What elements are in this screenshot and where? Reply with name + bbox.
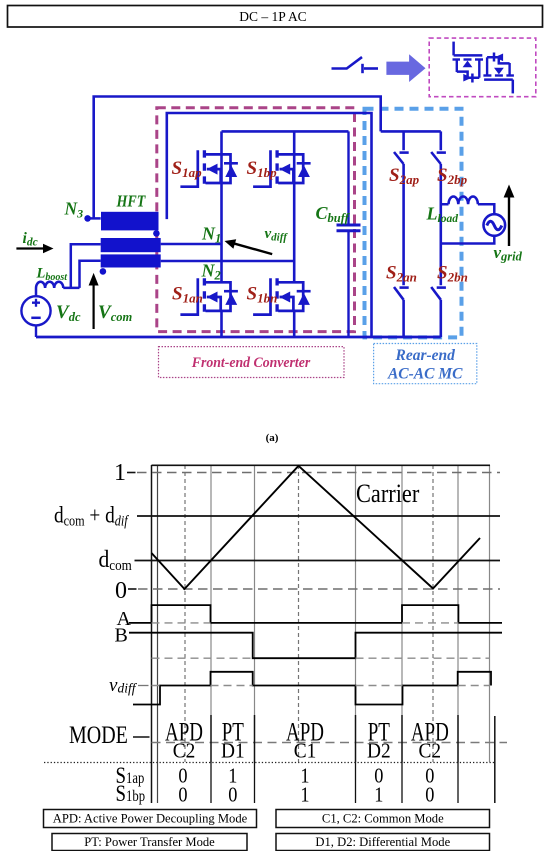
svg-text:S2an: S2an <box>386 263 417 285</box>
switch icon (legend, top right) <box>332 57 379 73</box>
source vgrid circle <box>484 214 506 236</box>
wire: drain rail <box>222 130 349 133</box>
svg-text:N1: N1 <box>201 224 221 246</box>
chart top frame <box>152 464 491 466</box>
svg-text:B: B <box>115 625 128 647</box>
svg-text:dcom: dcom <box>99 546 133 573</box>
level line 1 dashed <box>127 472 136 474</box>
wire: bottom rail <box>36 336 441 339</box>
wire: dc input lower <box>80 261 101 288</box>
inductor Lboost <box>36 282 63 296</box>
svg-text:Vcom: Vcom <box>98 302 132 324</box>
wire: N1 <box>161 243 222 246</box>
svg-text:Front-end Converter: Front-end Converter <box>191 355 311 372</box>
switch S2an <box>394 164 409 337</box>
mode column dividers <box>211 715 495 803</box>
svg-text:vgrid: vgrid <box>494 243 523 264</box>
svg-text:(a): (a) <box>266 432 279 444</box>
arrow idc <box>16 244 53 254</box>
svg-text:C1, C2: Common Mode: C1, C2: Common Mode <box>322 812 444 826</box>
wire: inner rail from N3 right terminal <box>167 113 372 337</box>
svg-text:1: 1 <box>114 460 126 486</box>
capacitor Cbuff <box>337 131 361 337</box>
svg-text:S1bn: S1bn <box>247 284 278 306</box>
signal B <box>115 625 503 659</box>
svg-text:S2bn: S2bn <box>437 263 468 285</box>
rear-end label box <box>374 344 477 384</box>
svg-text:Rear-end: Rear-end <box>394 347 455 364</box>
svg-text:1: 1 <box>374 783 383 807</box>
svg-text:0: 0 <box>115 578 127 604</box>
wire: grid return <box>441 236 495 244</box>
S1bp values <box>178 783 434 807</box>
mode labels row1 <box>165 718 449 747</box>
arrow vgrid <box>504 185 515 247</box>
block arrow <box>386 54 425 82</box>
svg-text:HFT: HFT <box>116 192 146 210</box>
svg-text:0: 0 <box>178 783 187 807</box>
svg-text:C2: C2 <box>419 740 442 763</box>
wire: outer top rail <box>94 97 381 219</box>
svg-text:N2: N2 <box>201 261 221 283</box>
svg-text:D2: D2 <box>367 740 391 763</box>
svg-text:MODE: MODE <box>69 721 128 749</box>
svg-text:PT: Power Transfer Mode: PT: Power Transfer Mode <box>84 835 215 849</box>
svg-text:DC – 1P AC: DC – 1P AC <box>239 9 306 24</box>
wire: leg B bottom <box>293 311 296 337</box>
transformer HFT windings <box>101 212 161 268</box>
wire: leg B mid <box>293 131 296 282</box>
svg-text:Lboost: Lboost <box>36 266 69 284</box>
title box DC-1P AC <box>8 6 543 28</box>
chart gridlines vertical gray <box>211 465 490 762</box>
carrier waveform <box>152 466 481 589</box>
legend box APD <box>44 810 257 828</box>
signal vdiff <box>109 672 491 705</box>
front-end label box <box>159 347 345 378</box>
level line dcom <box>135 560 501 562</box>
chart axis double line <box>151 465 153 803</box>
transistor S1bn <box>253 278 310 314</box>
dotted separator <box>44 762 495 764</box>
signal A <box>117 605 503 630</box>
chart gridlines vertical dashed <box>185 465 433 762</box>
svg-text:D1, D2: Differential Mode: D1, D2: Differential Mode <box>315 835 450 849</box>
svg-text:0: 0 <box>228 783 237 807</box>
S1ap values <box>178 764 434 788</box>
wire: leg A bottom <box>220 311 223 337</box>
mode labels row2 <box>173 740 441 763</box>
bidirectional switch icon: MOSFET pair <box>453 42 484 83</box>
level line dcom+ddif <box>137 515 500 517</box>
svg-text:AC-AC MC: AC-AC MC <box>387 366 463 383</box>
level line 0 dashed <box>128 588 137 590</box>
mode column dividers S rows <box>211 762 458 803</box>
legend box D1D2 <box>276 834 490 851</box>
switch S2bp <box>431 131 446 164</box>
svg-text:vdiff: vdiff <box>265 226 289 244</box>
source Vdc <box>21 296 50 337</box>
svg-text:0: 0 <box>425 783 434 807</box>
transistor S1an <box>180 278 238 314</box>
wire: mid winding to leg B <box>161 260 295 263</box>
svg-text:idc: idc <box>23 230 38 249</box>
svg-text:S1bp: S1bp <box>247 158 278 180</box>
arrow Vcom <box>89 273 99 329</box>
rear-end AC-AC MC dashed box <box>365 109 462 338</box>
inductor Lload <box>441 197 495 215</box>
transistor S1ap <box>180 150 238 186</box>
transformer polarity dots <box>84 215 91 222</box>
wire: leg A mid <box>220 131 223 282</box>
arrow vdiff <box>225 239 273 254</box>
legend box PT <box>52 834 247 851</box>
transistor S1bp <box>253 150 310 186</box>
svg-text:C1: C1 <box>294 740 317 763</box>
svg-text:APD: Active Power Decoupling M: APD: Active Power Decoupling Mode <box>53 812 248 826</box>
svg-text:Carrier: Carrier <box>356 479 419 508</box>
svg-text:Vdc: Vdc <box>56 302 81 324</box>
wire: dc input upper <box>71 244 101 288</box>
svg-text:D1: D1 <box>221 740 245 763</box>
wire: N3 left stub <box>87 217 101 220</box>
svg-text:1: 1 <box>300 783 309 807</box>
mode row dashed midline <box>152 742 508 744</box>
switch S2ap <box>394 131 409 164</box>
svg-text:dcom + ddif: dcom + ddif <box>54 502 130 529</box>
wire: Lboost to verticals joint <box>63 287 79 290</box>
legend box C1C2 <box>276 810 490 828</box>
svg-text:C2: C2 <box>173 740 196 763</box>
svg-text:Cbuff: Cbuff <box>316 203 351 225</box>
dashed box around bidirectional switch icon <box>429 38 536 97</box>
switch S2bn <box>431 164 446 337</box>
front-end converter dashed box <box>157 108 355 332</box>
rear-end entry rail <box>381 130 441 133</box>
svg-text:N3: N3 <box>64 199 84 221</box>
svg-text:vdiff: vdiff <box>109 675 138 696</box>
